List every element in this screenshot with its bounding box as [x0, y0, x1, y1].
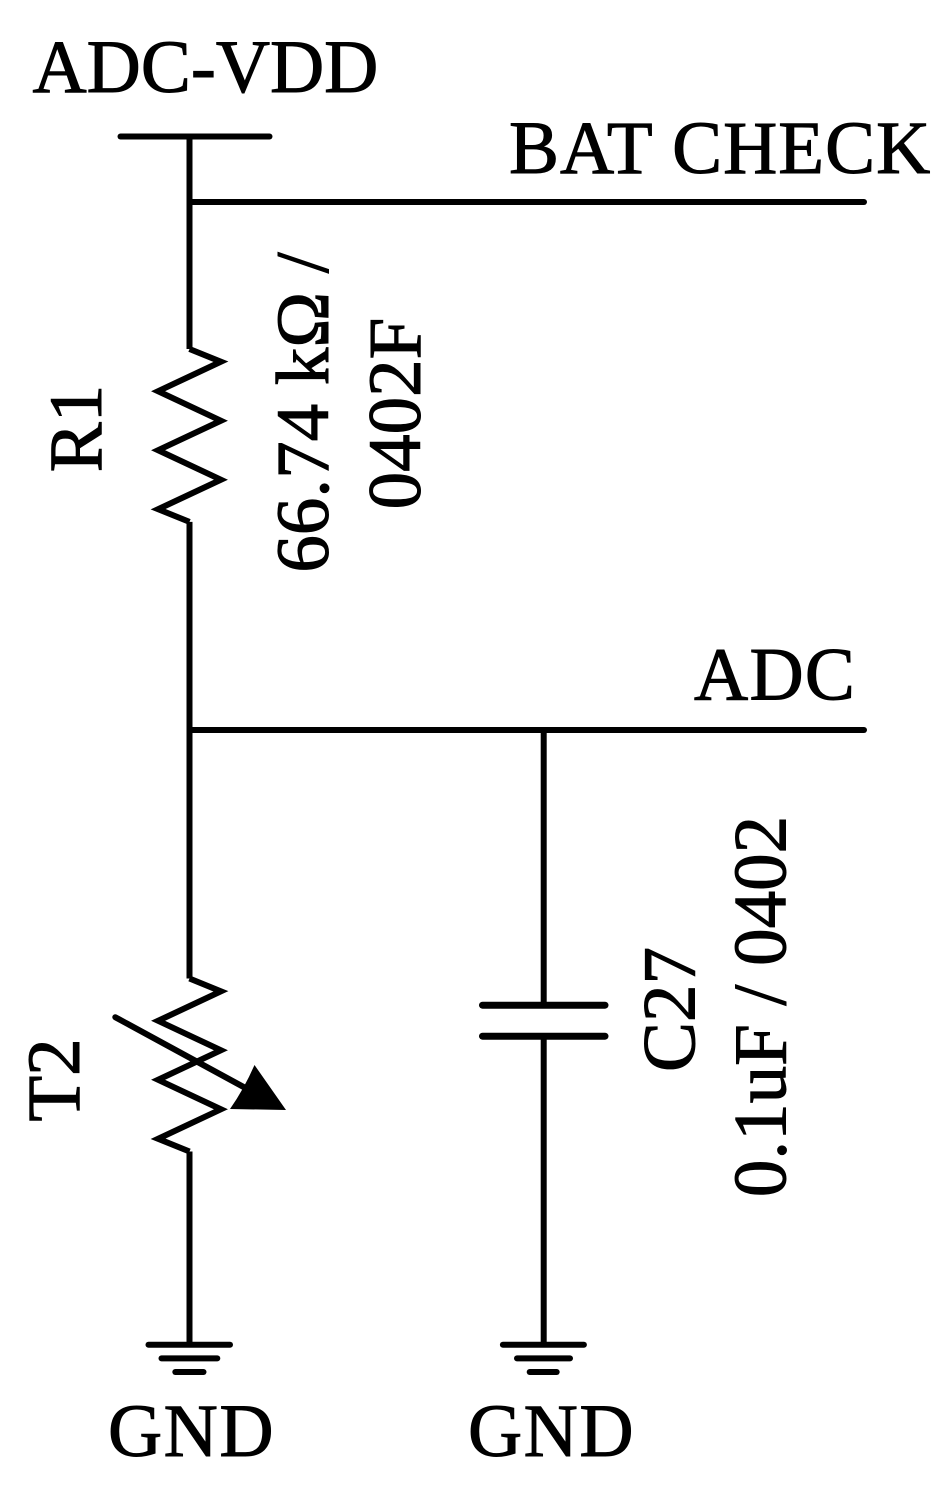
svg-text:GND: GND [468, 1390, 635, 1473]
svg-text:R1: R1 [35, 385, 118, 473]
svg-text:C27: C27 [629, 947, 712, 1072]
svg-text:0402F: 0402F [354, 318, 437, 510]
svg-text:0.1uF / 0402: 0.1uF / 0402 [720, 816, 803, 1197]
svg-text:ADC-VDD: ADC-VDD [33, 26, 379, 109]
svg-text:GND: GND [108, 1390, 275, 1473]
svg-text:66.74 kΩ /: 66.74 kΩ / [262, 252, 345, 572]
svg-text:BAT CHECK: BAT CHECK [509, 107, 931, 190]
svg-text:T2: T2 [13, 1038, 96, 1121]
svg-text:ADC: ADC [694, 634, 856, 717]
